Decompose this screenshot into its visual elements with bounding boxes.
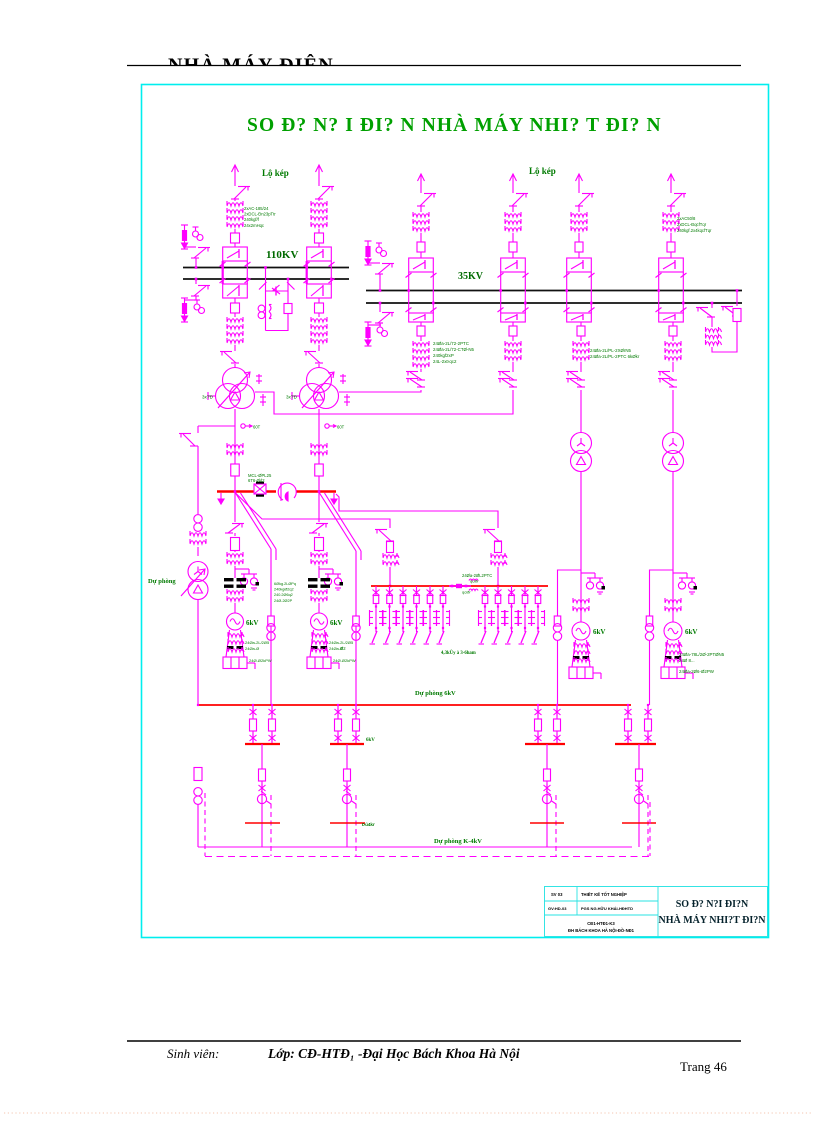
- wire bay673 down to unit4 transformer: [672, 390, 674, 433]
- 35kV line bay x671: CT coil stack: [663, 214, 679, 217]
- unit 3 aux links: [553, 624, 561, 632]
- svg-text:110KV: 110KV: [266, 249, 298, 261]
- generator G2: [311, 613, 328, 630]
- aux riser 271 rect: [268, 616, 275, 626]
- 6kV feeder x628: [627, 705, 629, 744]
- transformer bay T2: disconnector: [308, 352, 320, 363]
- unit 2 PT cluster: [319, 568, 333, 570]
- 35kV aux lower leg: [379, 303, 381, 312]
- aux riser 356 links: [352, 624, 360, 632]
- unit 3 riser wire: [580, 472, 582, 623]
- station service left riser rect: [194, 768, 202, 781]
- unit 4 two-winding transformer: [663, 433, 684, 454]
- junction dots on 6kV line: [197, 704, 199, 706]
- svg-text:Dự phòng 6kV: Dự phòng 6kV: [415, 690, 456, 697]
- title block outer box: [545, 887, 768, 937]
- 35kV line bay x421: disconnector: [420, 194, 432, 206]
- svg-text:6kV: 6kV: [685, 628, 697, 636]
- unit 3 aux branch wire: [558, 570, 582, 617]
- svg-text:24Øa-2L/PL-2PTC 6kØkr: 24Øa-2L/PL-2PTC 6kØkr: [590, 354, 640, 359]
- unit 4 aux links: [645, 624, 653, 632]
- tap indicator on bay2: [325, 424, 329, 428]
- CT ring on reserve bus: [278, 483, 296, 500]
- title block row line 2: [545, 914, 659, 916]
- wire arrester-PT bar upper: [185, 246, 197, 248]
- three-winding autotransformer T1: [223, 368, 248, 393]
- svg-text:4,3kÙy à 3-6ham: 4,3kÙy à 3-6ham: [441, 650, 476, 656]
- 4kV incoming feeder 390: [379, 530, 391, 541]
- 110kV PT bay bottom link: [266, 314, 289, 331]
- unit 1 breaker rect: [231, 538, 240, 551]
- station service disconnector on left riser: [183, 434, 195, 446]
- 110kV surge arrester upper: [184, 225, 186, 230]
- unit 2 disconnector: [312, 524, 324, 533]
- 4kV feeder x376: [375, 586, 377, 632]
- unit 4 CT coil stack: [665, 600, 681, 603]
- 110KV double busbar: [183, 267, 349, 269]
- 4kV feeder x430: [429, 586, 431, 632]
- svg-text:2xAC50/8: 2xAC50/8: [677, 216, 696, 221]
- aux riser 271 links: [267, 624, 275, 632]
- 35kV lower bay x513: disconnector pair: [502, 372, 514, 380]
- station service left riser links: [194, 788, 202, 796]
- unit 3 CT coil stack: [573, 600, 589, 603]
- svg-text:6T6-Ød2: 6T6-Ød2: [248, 478, 265, 483]
- 35kV lower bay x513: rect element: [509, 326, 517, 336]
- svg-text:24x2mHqc: 24x2mHqc: [244, 223, 264, 228]
- station service standby transformer: [188, 562, 208, 582]
- svg-text:GV:HD-03: GV:HD-03: [548, 906, 567, 911]
- 35kV lower bay x421: disconnector pair: [410, 372, 422, 380]
- svg-text:Dự phòng: Dự phòng: [148, 578, 176, 585]
- wire bay1 tap diagonal to 4kV incoming line: [236, 493, 391, 528]
- svg-text:24Øa-78L/2Ø-2PTØN5: 24Øa-78L/2Ø-2PTØN5: [679, 652, 725, 657]
- bottom 4kV reserve bus (dashed): [205, 856, 650, 858]
- 35kV line bay x579: disconnector: [578, 194, 590, 206]
- svg-text:PGS NG.HỮU KHÁI-HĐHTD: PGS NG.HỮU KHÁI-HĐHTD: [581, 906, 633, 911]
- svg-text:24Ø-Ø2kPW: 24Ø-Ø2kPW: [333, 658, 356, 663]
- 35kV lower bay x673: CT coil stack: [665, 343, 681, 346]
- 4kV feeder x485: [484, 586, 486, 632]
- unit 4 riser wire: [672, 472, 674, 623]
- unit 3 PT cluster: [581, 572, 595, 574]
- 35kV surge arrester lower: [367, 322, 369, 327]
- 110kV bus PT upper: [193, 231, 199, 237]
- left earthing hook: [220, 493, 222, 500]
- 35KV double busbar: [366, 290, 742, 292]
- T1 low-side breaker rect: [231, 464, 240, 476]
- 6kV small red bus 4: [615, 743, 656, 745]
- svg-text:Trang 46: Trang 46: [680, 1059, 727, 1074]
- wire reserve-bus right end to 4kV incoming line 498: [336, 494, 498, 528]
- svg-text:24Ø-2Ø2P: 24Ø-2Ø2P: [274, 599, 293, 603]
- svg-text:6kV: 6kV: [366, 738, 375, 743]
- unit 2 CT coil stack: [311, 554, 327, 557]
- 4kV feeder x403: [402, 586, 404, 632]
- svg-text:24Ø 8...: 24Ø 8...: [679, 658, 695, 663]
- svg-text:24Ø-Ø2kPW: 24Ø-Ø2kPW: [249, 658, 272, 663]
- svg-text:Lớp: CĐ-HTĐ₁ -Đại Học Bách Kho: Lớp: CĐ-HTĐ₁ -Đại Học Bách Khoa Hà Nội: [267, 1046, 520, 1061]
- 35kV line bay x513: CT coil stack: [505, 214, 521, 217]
- unit 2 second coil stack: [311, 591, 327, 594]
- 35kV line bay x671: disconnector: [670, 194, 682, 206]
- title block col divider: [576, 887, 578, 916]
- unit 2 black CT stripes: [308, 578, 318, 581]
- svg-text:Lộ kép: Lộ kép: [529, 166, 556, 176]
- wire to lower arrester/PT: [185, 299, 200, 301]
- generator G1 neutral funnel: [226, 630, 244, 657]
- svg-text:qcØr: qcØr: [470, 579, 479, 584]
- unit 1 junction at reserve bus: [234, 490, 237, 493]
- 35kV line bay x513: bay bridge over double bus: [501, 258, 526, 272]
- 35kV lower bay x513: CT coil stack: [505, 343, 521, 346]
- 35kV lower bay x421: CT coil stack: [413, 343, 429, 346]
- T1 low-side CT coil stack: [227, 445, 243, 448]
- svg-text:qcØr: qcØr: [462, 590, 471, 595]
- svg-text:6kV: 6kV: [330, 619, 342, 627]
- transformer bay T2: stub below bay bridge: [318, 298, 320, 303]
- 4kV busbar (red): [371, 585, 548, 587]
- bottom faint dotted rule: [4, 1112, 812, 1114]
- bottom 4kV reserve bus (solid): [198, 846, 632, 848]
- 110kV line bay L2: CT coil stack: [311, 203, 327, 206]
- 35kV lower bay x581: rect element: [577, 326, 585, 336]
- svg-text:60T: 60T: [253, 425, 261, 430]
- svg-text:Þú4kr: Þú4kr: [362, 822, 375, 827]
- generator G1: [227, 613, 244, 630]
- svg-text:2xAC-185/24: 2xAC-185/24: [244, 206, 269, 211]
- 110kV line bay L2: disconnector DS: [318, 187, 330, 199]
- lower feeder x347: [346, 744, 348, 847]
- svg-text:60T: 60T: [337, 425, 345, 430]
- 35kV line bay x421: CT coil stack: [413, 214, 429, 217]
- unit 1 second coil stack: [227, 591, 243, 594]
- wire T1 down to 6kV reserve bus: [234, 409, 236, 492]
- 6kV reserve line (red): [198, 704, 631, 706]
- 35kV bus-end resistor: [733, 309, 741, 322]
- transformer bay T1: stub below bay bridge: [234, 298, 236, 303]
- svg-text:35KV: 35KV: [458, 271, 484, 282]
- 6kV feeder x557: [556, 705, 558, 744]
- 110kV aux disconnector upper: [194, 248, 206, 258]
- 35kV bus-end CT coils: [706, 329, 722, 332]
- 35kV bus PT upper: [376, 247, 382, 253]
- 35kV line bay x671: bay bridge over double bus: [659, 258, 684, 272]
- red tick 3: [530, 822, 564, 824]
- 35kV lower bay x513: stub below bridge: [512, 322, 514, 326]
- svg-text:SO Đ? N?I ĐI?N: SO Đ? N?I ĐI?N: [676, 899, 749, 910]
- wire T1 medium-voltage output to 35kV feeder line B: [255, 390, 513, 414]
- 110kV aux disconnector lower: [194, 286, 206, 296]
- 110kV PT bay link with disconnectors: [266, 290, 289, 292]
- 35kV bus-end PT bay legs: [711, 303, 713, 308]
- T1 tertiary CT ticks: [258, 374, 260, 384]
- lower feeder x547: [546, 744, 548, 847]
- 35kV line bay x671: arrow: [670, 174, 672, 186]
- 35kV line bay x579: CT coil stack: [571, 214, 587, 217]
- 110kV line bay L1: bay bridge over double bus: [223, 247, 248, 261]
- svg-text:24Øa-2ØL2PTC: 24Øa-2ØL2PTC: [462, 573, 492, 578]
- 6kV feeder x272: [271, 705, 273, 744]
- unit 4 aux rect: [646, 616, 653, 626]
- left dashed riser: [204, 793, 206, 856]
- right earthing hook: [333, 493, 335, 500]
- station service riser down: [197, 600, 199, 706]
- 35kV bus-end disconnectors: [700, 308, 712, 317]
- svg-text:24Øa-2L/2Ø5: 24Øa-2L/2Ø5: [329, 640, 354, 645]
- generator G3 neutral funnel: [572, 640, 590, 667]
- unit 4 PT cluster: [673, 572, 687, 574]
- svg-text:NHÀ MÁY NHI?T ĐI?N: NHÀ MÁY NHI?T ĐI?N: [659, 914, 767, 926]
- 4kV feeder x498: [497, 586, 499, 632]
- 35kV lower bay x673: stub below bridge: [672, 322, 674, 326]
- wire T2 medium-voltage output to 35kV bay 421: [339, 390, 421, 392]
- 35kV line bay x579: bay bridge over double bus: [567, 258, 592, 272]
- T2 left terminal stub: [292, 395, 300, 397]
- 6kV feeder x356: [355, 705, 357, 744]
- 110kV surge arrester lower: [184, 298, 186, 303]
- 35kV lower bay x581: stub below bridge: [580, 322, 582, 326]
- svg-text:THIẾT KẾ TỐT NGHIỆP: THIẾT KẾ TỐT NGHIỆP: [581, 892, 627, 897]
- red tick 4: [622, 822, 656, 824]
- lower feeder x639: [638, 744, 640, 847]
- 110kV line bay L2: arrow: [318, 165, 320, 177]
- station service links (8): [194, 515, 202, 523]
- transformer bay T2: rect element: [315, 303, 324, 313]
- 35kV lower bay x581: CT coil stack: [573, 343, 589, 346]
- footer rule: [127, 1040, 741, 1042]
- svg-text:240kgf/f: 240kgf/f: [244, 217, 260, 222]
- unit 2 junction at reserve bus: [318, 490, 321, 493]
- svg-text:24L-2xÞqc2: 24L-2xÞqc2: [433, 359, 457, 364]
- 110kV aux lower leg: [195, 279, 197, 284]
- 35kV line bay x579: arrow: [578, 174, 580, 186]
- svg-text:24Øa-2L/72-CTØ-N5: 24Øa-2L/72-CTØ-N5: [433, 347, 475, 352]
- 35kV lower bay x421: stub below bridge: [420, 322, 422, 326]
- generator G2 neutral funnel: [310, 630, 328, 657]
- svg-text:24Øa-2Ø6-Ø2PW: 24Øa-2Ø6-Ø2PW: [679, 669, 715, 674]
- title block row line 1: [545, 900, 659, 902]
- three-winding autotransformer T2: [307, 368, 332, 393]
- 110kV line bay L1: CT coil stack: [227, 203, 243, 206]
- svg-text:SO Đ? N? I ĐI? N NHÀ MÁY NHI?: SO Đ? N? I ĐI? N NHÀ MÁY NHI? T ĐI? N: [247, 114, 662, 136]
- svg-text:CĐ1-HTĐ1-K3: CĐ1-HTĐ1-K3: [587, 921, 615, 926]
- 35kV bus-end U link: [712, 322, 737, 353]
- 4kV feeder x443: [442, 586, 444, 632]
- transformer bay T2: CT coil stack: [311, 319, 327, 322]
- frame border: [142, 85, 769, 938]
- 110kV PT bay left leg from bus 1: [265, 268, 267, 331]
- svg-text:240.2Ø6q2: 240.2Ø6q2: [274, 593, 293, 597]
- svg-text:240kgf2xP: 240kgf2xP: [433, 353, 454, 358]
- svg-text:24Øa-2L/PL-2XØrN5: 24Øa-2L/PL-2XØrN5: [590, 348, 632, 353]
- T2 low-side CT coil stack: [311, 445, 327, 448]
- unit 1 black CT stripes: [224, 578, 234, 581]
- 35kV line bay x513: disconnector: [512, 194, 524, 206]
- 35kV lower bay x673: disconnector pair: [662, 372, 674, 380]
- svg-text:6kV: 6kV: [593, 628, 605, 636]
- 110kV line bay L2: fuse/CT rect: [315, 233, 324, 243]
- 110kV line bay L1: fuse/CT rect: [231, 233, 240, 243]
- unit 1 CT coil stack: [227, 554, 243, 557]
- unit 3 two-winding transformer: [571, 433, 592, 454]
- 35kV line bay x513: arrow: [512, 174, 514, 186]
- unit 3 aux rect: [554, 616, 561, 626]
- unit 4 aux branch wire: [650, 570, 674, 617]
- unit 1 PT cluster: [235, 568, 249, 570]
- 4kV incoming feeder 498: [487, 530, 499, 541]
- 6kV small red bus 1: [245, 743, 280, 745]
- 110kV bus potential transformer windings: [258, 305, 265, 312]
- 6kV feeder x253: [252, 705, 254, 744]
- 35kV surge arrester upper: [367, 241, 369, 246]
- red tick 1: [245, 822, 280, 824]
- T2 tertiary CT ticks: [342, 374, 344, 384]
- generator G4: [664, 622, 682, 640]
- 110kV bus PT lower: [194, 304, 200, 310]
- wire bay2 tap diagonals to aux riser 356: [320, 493, 357, 551]
- svg-text:240kgØ2q2: 240kgØ2q2: [274, 588, 294, 592]
- unit 1 disconnector: [228, 524, 240, 533]
- svg-text:2xDCL-ĐqcfTqr: 2xDCL-ĐqcfTqr: [677, 222, 707, 227]
- T2 low-side breaker rect: [315, 464, 324, 476]
- reserve bus 6kV (red) segment right: [296, 490, 336, 492]
- transformer bay T1: disconnector: [224, 352, 236, 363]
- 4kV feeder x389.5: [389, 586, 391, 632]
- svg-text:SV 03: SV 03: [551, 892, 563, 897]
- red tick 2: [330, 822, 365, 824]
- svg-text:240kgf.2x4kqcfTqr: 240kgf.2x4kqcfTqr: [677, 228, 712, 233]
- 35kV line bay x421: arrow: [420, 174, 422, 186]
- 6kV small red bus 3: [525, 743, 565, 745]
- svg-text:ĐH BÁCH KHOA HÀ NỘI-ĐỒ-NĐ1: ĐH BÁCH KHOA HÀ NỘI-ĐỒ-NĐ1: [568, 928, 635, 933]
- 6kV small red bus 2: [330, 743, 364, 745]
- svg-text:24Øa-2L/72-2PTC: 24Øa-2L/72-2PTC: [433, 341, 469, 346]
- generator G3: [572, 622, 590, 640]
- wire bay1 to station service line: [198, 425, 235, 427]
- tap indicator on bay1: [241, 424, 245, 428]
- station service CT coils: [190, 533, 206, 536]
- unit 2 breaker rect: [315, 538, 324, 551]
- 4kV feeder x416.5: [416, 586, 418, 632]
- 35kV lower bay x581: disconnector pair: [570, 372, 582, 380]
- 4kV feeder x511.5: [511, 586, 513, 632]
- transformer bay T1: CT coil stack: [227, 319, 243, 322]
- lower feeder x262: [261, 744, 263, 847]
- 110kV PT bay damping resistor: [287, 291, 289, 304]
- svg-text:2xDCL-Đn23pTtr: 2xDCL-Đn23pTtr: [244, 212, 276, 217]
- 110kV line bay L1: disconnector DS: [234, 187, 246, 199]
- svg-text:3xTĐ: 3xTĐ: [286, 395, 298, 400]
- svg-text:6Økg.2LØPq: 6Økg.2LØPq: [274, 582, 296, 586]
- svg-text:Dự phòng K-4kV: Dự phòng K-4kV: [434, 838, 482, 845]
- 35kV line bay x513: rect element: [509, 242, 517, 252]
- svg-text:24Øa-Ø: 24Øa-Ø: [245, 646, 259, 651]
- right dashed riser: [649, 802, 651, 856]
- header rule: [127, 65, 741, 67]
- 35kV lower bay x673: rect element: [669, 326, 677, 336]
- svg-text:24Øa-2L/2Ø5: 24Øa-2L/2Ø5: [245, 640, 270, 645]
- transformer bay T1: rect element: [231, 303, 240, 313]
- svg-text:6kV: 6kV: [246, 619, 258, 627]
- 110kV line bay L1: arrow: [234, 165, 236, 177]
- wire bay581 down to unit3 transformer: [580, 390, 582, 433]
- 35kV lower bay x421: rect element: [417, 326, 425, 336]
- 4kV bus tie symbol: [449, 585, 471, 587]
- 110kV line bay L2: bay bridge over double bus: [307, 247, 332, 261]
- reserve bus breaker: [254, 484, 266, 494]
- 110kV PT bay right leg from bus 2: [287, 279, 289, 291]
- svg-text:Lộ kép: Lộ kép: [262, 168, 289, 178]
- 35kV aux disconnector lower: [378, 313, 390, 323]
- svg-text:Sinh viên:: Sinh viên:: [167, 1046, 219, 1061]
- generator G4 neutral funnel: [664, 640, 682, 667]
- wire bay1 tap diagonals to aux riser 271: [236, 493, 272, 549]
- 35kV line bay x671: rect element: [667, 242, 675, 252]
- 35kV aux disconnector upper: [378, 264, 390, 274]
- svg-text:24Øa-Ø: 24Øa-Ø: [329, 646, 343, 651]
- wire T2 down to 6kV reserve bus: [318, 409, 320, 492]
- 35kV line bay x579: rect element: [575, 242, 583, 252]
- 4kV feeder x538: [537, 586, 539, 632]
- 6kV feeder x338: [337, 705, 339, 744]
- 35kV line bay x421: bay bridge over double bus: [409, 258, 434, 272]
- 6kV feeder x648: [647, 705, 649, 744]
- title block divider vertical main: [657, 887, 659, 937]
- 35kV line bay x421: rect element: [417, 242, 425, 252]
- T1 left terminal stub: [208, 395, 216, 397]
- 6kV feeder x538: [537, 705, 539, 744]
- 4kV feeder x525: [524, 586, 526, 632]
- 35kV bus PT lower: [377, 327, 383, 333]
- aux riser 356 rect: [353, 616, 360, 626]
- svg-text:3xTĐ: 3xTĐ: [202, 395, 214, 400]
- reserve bus 6kV (red) segment left: [217, 490, 276, 492]
